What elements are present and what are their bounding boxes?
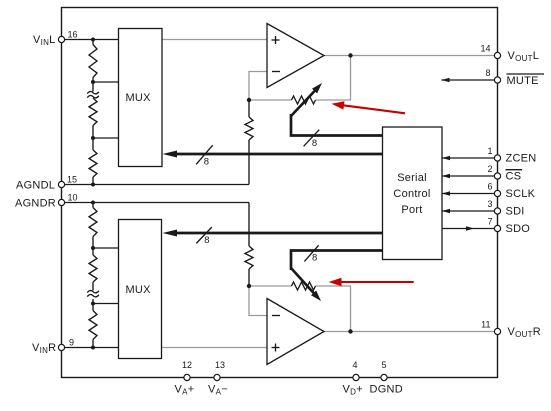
svg-text:8: 8 (204, 157, 209, 168)
svg-text:11: 11 (481, 319, 490, 329)
svg-text:CS: CS (506, 171, 522, 183)
svg-text:AGNDL: AGNDL (16, 179, 55, 191)
svg-text:14: 14 (480, 43, 490, 53)
svg-text:9: 9 (69, 337, 74, 347)
svg-text:SCLK: SCLK (506, 188, 536, 200)
svg-text:8: 8 (312, 138, 317, 149)
svg-text:Port: Port (401, 204, 422, 216)
svg-text:6: 6 (487, 181, 492, 191)
svg-text:5: 5 (381, 360, 386, 370)
svg-text:13: 13 (215, 360, 225, 370)
svg-text:15: 15 (67, 174, 77, 184)
svg-text:10: 10 (67, 192, 77, 202)
svg-text:7: 7 (487, 216, 492, 226)
svg-text:SDO: SDO (506, 223, 531, 235)
svg-text:MUTE: MUTE (507, 75, 539, 87)
svg-text:Control: Control (393, 188, 430, 200)
svg-text:MUX: MUX (126, 284, 152, 296)
svg-text:16: 16 (67, 29, 77, 39)
svg-text:8: 8 (204, 235, 209, 246)
svg-text:Serial: Serial (397, 172, 427, 184)
svg-text:1: 1 (487, 146, 492, 156)
svg-text:SDI: SDI (506, 206, 525, 218)
svg-text:3: 3 (487, 199, 492, 209)
svg-text:AGNDR: AGNDR (15, 197, 56, 209)
svg-text:4: 4 (352, 360, 357, 370)
svg-text:8: 8 (312, 252, 317, 263)
svg-text:ZCEN: ZCEN (506, 153, 537, 165)
svg-text:DGND: DGND (370, 384, 403, 396)
svg-text:8: 8 (485, 68, 490, 78)
svg-text:2: 2 (487, 164, 492, 174)
svg-text:12: 12 (182, 360, 192, 370)
svg-text:MUX: MUX (126, 92, 152, 104)
